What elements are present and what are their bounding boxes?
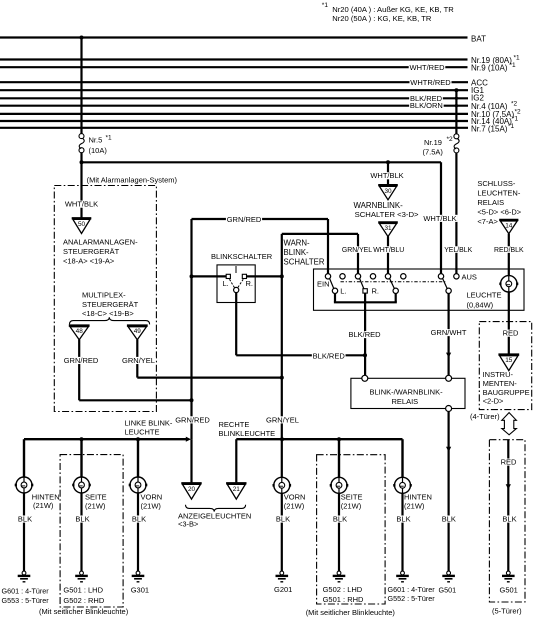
svg-text:BLK/RED: BLK/RED bbox=[348, 330, 381, 339]
wire BLK left seite bbox=[80, 493, 82, 571]
wire RED/BLK 5-door bbox=[507, 440, 509, 572]
wire WHT/BLK into alarm control unit bbox=[64, 201, 99, 208]
svg-text:GRN/RED: GRN/RED bbox=[64, 356, 99, 365]
svg-text:LINKE BLINK-: LINKE BLINK- bbox=[125, 419, 173, 428]
svg-text:RELAIS: RELAIS bbox=[392, 397, 419, 406]
svg-text:L.: L. bbox=[340, 287, 346, 296]
wire WHT/BLK horizontal to hazard switch bbox=[82, 161, 442, 163]
blade hazard pole4 bbox=[443, 279, 448, 289]
wire bus ACC bbox=[0, 81, 468, 83]
box Instrumenten-Baugruppe bbox=[479, 322, 531, 410]
svg-text:(21W): (21W) bbox=[284, 501, 305, 510]
svg-text:G601 : 4-Türer: G601 : 4-Türer bbox=[2, 586, 50, 595]
bulb LEUCHTE 0.84W bbox=[501, 276, 517, 292]
svg-text:Nr20 (50A ) : KG, KE, KB, TR: Nr20 (50A ) : KG, KE, KB, TR bbox=[332, 14, 432, 23]
blade hazard pole3 bbox=[390, 279, 395, 289]
pivot hazard pole2 bbox=[363, 289, 367, 293]
svg-text:<2-D>: <2-D> bbox=[483, 397, 504, 406]
svg-text:<5-D> <6-D>: <5-D> <6-D> bbox=[477, 208, 521, 217]
blade hazard pole2 bbox=[360, 279, 364, 289]
splice arrow 5-door wire bbox=[506, 484, 511, 489]
box 5-Tuerer variant bbox=[489, 440, 525, 602]
svg-text:R.: R. bbox=[246, 279, 254, 288]
ground G601 right hinten bbox=[401, 571, 405, 575]
splice arrow relay ground wire bbox=[446, 447, 451, 452]
contact L blinkschalter bbox=[226, 274, 230, 278]
svg-text:31: 31 bbox=[384, 225, 392, 232]
svg-text:R.: R. bbox=[372, 287, 380, 296]
wire right indicator drop bbox=[235, 439, 237, 483]
wire GRN/YEL top link to hazard switch bbox=[282, 233, 358, 235]
svg-text:(21W): (21W) bbox=[141, 501, 162, 510]
svg-text:LEUCHTE: LEUCHTE bbox=[467, 291, 502, 300]
junction right bus grnyel bbox=[280, 437, 284, 441]
wire right hinten lamp drop bbox=[401, 439, 403, 477]
svg-text:<7-A>: <7-A> bbox=[477, 217, 498, 226]
wire GRN/YEL from multiplex bbox=[136, 340, 138, 378]
splice arrow GRN/WHT bbox=[446, 353, 451, 358]
fuse Nr.5 (10A) bbox=[79, 134, 84, 139]
wire BAT feed to fuse Nr.5 bbox=[80, 38, 82, 134]
svg-text:(5-Türer): (5-Türer) bbox=[492, 607, 522, 616]
svg-text:G553 : 5-Türer: G553 : 5-Türer bbox=[2, 596, 50, 605]
wire BLK/RED blinkschalter common to relay feed bbox=[236, 354, 365, 356]
box mit seitlicher Blinkleuchte right bbox=[317, 455, 386, 604]
svg-text:(21W): (21W) bbox=[85, 501, 106, 510]
svg-text:15: 15 bbox=[505, 357, 513, 364]
svg-text:HINTEN: HINTEN bbox=[32, 492, 60, 501]
wire GRN/RED top link to hazard switch bbox=[192, 218, 329, 220]
svg-text:*2: *2 bbox=[447, 136, 454, 143]
wire BLK relay to ground bbox=[448, 412, 450, 572]
svg-text:MENTEN-: MENTEN- bbox=[483, 379, 518, 388]
svg-text:Nr.5: Nr.5 bbox=[89, 136, 103, 145]
svg-text:<18-C> <19-B>: <18-C> <19-B> bbox=[82, 309, 134, 318]
contact hazard pole3 b bbox=[401, 274, 406, 279]
svg-text:BLK/RED: BLK/RED bbox=[313, 351, 346, 360]
fuse Nr.19 (7.5A) bbox=[454, 134, 459, 139]
svg-text:Nr.9 (10A): Nr.9 (10A) bbox=[471, 63, 508, 72]
svg-text:GRN/WHT: GRN/WHT bbox=[431, 328, 467, 337]
bulb HINTEN right bbox=[395, 477, 411, 493]
svg-text:21: 21 bbox=[233, 486, 241, 493]
svg-text:G552 : 5-Türer: G552 : 5-Türer bbox=[388, 594, 436, 603]
svg-text:*1: *1 bbox=[512, 116, 519, 123]
ground G301 left vorn bbox=[136, 571, 140, 575]
svg-text:(21W): (21W) bbox=[341, 501, 362, 510]
wire bus Nr.4 (10A) bbox=[0, 105, 468, 107]
svg-text:BLK/ORN: BLK/ORN bbox=[410, 101, 443, 110]
svg-text:WHT/BLK: WHT/BLK bbox=[370, 171, 403, 180]
wire left indicator drop bbox=[190, 439, 192, 483]
svg-text:BLINKLEUCHTE: BLINKLEUCHTE bbox=[219, 429, 276, 438]
svg-text:WHT/BLU: WHT/BLU bbox=[373, 247, 404, 254]
bulb SEITE left bbox=[74, 477, 90, 493]
wire WHT/BLK drop to triangle 30 bbox=[387, 162, 389, 185]
wire GRN/RED from multiplex bbox=[78, 340, 80, 401]
wire BLK right vorn bbox=[281, 493, 283, 571]
ground G201 right vorn bbox=[280, 571, 284, 575]
svg-text:*1: *1 bbox=[510, 62, 517, 69]
svg-text:BLK: BLK bbox=[502, 515, 516, 524]
junction WHT/BLK branch bbox=[80, 160, 84, 164]
wire right vorn lamp (GRN/YEL continues) bbox=[281, 439, 283, 477]
svg-text:G501 : LHD: G501 : LHD bbox=[63, 586, 103, 595]
contact AUS bbox=[454, 274, 459, 279]
ground G501 relay bbox=[447, 571, 451, 575]
wire BLK right seite bbox=[338, 493, 340, 571]
bulb VORN left bbox=[130, 477, 146, 493]
junction IG2 crossing bbox=[455, 97, 458, 100]
box Warnblinkschalter assembly bbox=[314, 269, 525, 310]
brace multiplex outputs bbox=[70, 317, 150, 324]
svg-text:*1: *1 bbox=[322, 2, 329, 9]
svg-text:*2: *2 bbox=[515, 108, 522, 115]
wire bus Nr.19 (80A) bbox=[0, 58, 468, 60]
hazard switch output bar bbox=[334, 293, 336, 302]
junction IG1 tap bbox=[454, 88, 458, 92]
svg-text:G502 : LHD: G502 : LHD bbox=[323, 585, 363, 594]
svg-text:RECHTE: RECHTE bbox=[219, 420, 250, 429]
svg-text:VORN: VORN bbox=[141, 493, 163, 502]
box mit seitlicher Blinkleuchte left bbox=[60, 455, 123, 607]
junction BAT x fuse Nr.5 feed bbox=[80, 36, 84, 40]
connector triangle 14 schlussleuchten-relais bbox=[499, 219, 518, 221]
svg-text:50: 50 bbox=[78, 221, 86, 228]
hazard switch mechanical link bbox=[341, 281, 447, 283]
connector triangle 15 instrument cluster bbox=[498, 353, 519, 355]
pivot hazard pole4 bbox=[446, 288, 451, 293]
contact EIN hazard pole1 bbox=[325, 274, 330, 279]
wire left hinten lamp drop bbox=[23, 439, 25, 477]
wire right turn lamp bus bbox=[236, 438, 402, 440]
svg-text:STEUERGERÄT: STEUERGERÄT bbox=[82, 300, 139, 309]
wire bus Nr.10 (7,5A) bbox=[0, 113, 468, 115]
svg-text:*1: *1 bbox=[514, 54, 521, 61]
svg-text:WHT/BLK: WHT/BLK bbox=[65, 200, 98, 209]
svg-text:(Mit seitlicher Blinkleuchte): (Mit seitlicher Blinkleuchte) bbox=[39, 607, 129, 616]
svg-text:BAUGRUPPE: BAUGRUPPE bbox=[483, 388, 530, 397]
svg-text:HINTEN: HINTEN bbox=[404, 493, 432, 502]
svg-text:AUS: AUS bbox=[462, 273, 477, 282]
svg-text:ANALARMANLAGEN-: ANALARMANLAGEN- bbox=[63, 238, 138, 247]
box Blink-Warnblink-Relais bbox=[351, 378, 465, 408]
splice arrow left bus bbox=[186, 437, 191, 442]
wire turn switch R row bbox=[244, 275, 281, 277]
svg-text:14: 14 bbox=[505, 223, 513, 230]
svg-text:BLINK-: BLINK- bbox=[284, 248, 310, 257]
svg-text:GRN/YEL: GRN/YEL bbox=[342, 247, 372, 254]
connector triangle 31 warnblinkschalter bbox=[378, 221, 398, 223]
junction left bus vorn bbox=[136, 437, 140, 441]
svg-text:RED: RED bbox=[503, 329, 519, 338]
wire bus Nr.9 (10A) bbox=[0, 66, 468, 68]
wire bus BAT bbox=[0, 36, 468, 38]
wire YEL/BLK fuse Nr.19 to AUS contact bbox=[455, 153, 457, 274]
svg-text:GRN/RED: GRN/RED bbox=[175, 415, 210, 424]
contact hazard pole4 WHT/BLK bbox=[438, 274, 443, 279]
svg-text:30: 30 bbox=[384, 188, 392, 195]
junction GRN/RED join bbox=[190, 398, 194, 402]
junction WHT/BLK x warnblinkschalter drop bbox=[386, 160, 390, 164]
contact hazard pole1 b bbox=[340, 274, 345, 279]
svg-text:VORN: VORN bbox=[284, 493, 306, 502]
junction Nr.4 crossing bbox=[455, 104, 458, 107]
svg-text:(10A): (10A) bbox=[89, 146, 108, 155]
junction GRN/YEL join bbox=[280, 376, 284, 380]
svg-text:SCHALTER: SCHALTER bbox=[284, 257, 325, 266]
svg-text:LEUCHTE: LEUCHTE bbox=[125, 428, 160, 437]
svg-text:(7.5A): (7.5A) bbox=[423, 147, 444, 156]
svg-text:G501: G501 bbox=[439, 585, 457, 594]
wire GRN/WHT hazard pilot output bbox=[448, 293, 450, 378]
terminal relay bottom bbox=[446, 406, 452, 412]
svg-text:(4-Türer): (4-Türer) bbox=[470, 412, 500, 421]
svg-text:(21W): (21W) bbox=[33, 501, 54, 510]
wire left turn lamp bus bbox=[24, 438, 187, 440]
svg-text:WHT/BLK: WHT/BLK bbox=[423, 214, 456, 223]
wire GRN/RED vertical left output bbox=[190, 219, 192, 439]
connector triangle 49 GRN/YEL output bbox=[127, 324, 148, 326]
wire WHT/BLK right drop to hazard contact bbox=[440, 162, 442, 273]
svg-text:(21W): (21W) bbox=[404, 501, 425, 510]
brace anzeigeleuchten bbox=[186, 505, 246, 512]
svg-text:INSTRU-: INSTRU- bbox=[483, 370, 514, 379]
svg-text:Nr.7 (15A): Nr.7 (15A) bbox=[471, 124, 508, 133]
svg-text:49: 49 bbox=[134, 328, 142, 335]
bulb HINTEN left bbox=[16, 477, 32, 493]
svg-text:MULTIPLEX-: MULTIPLEX- bbox=[82, 291, 126, 300]
wire RED/BLK to illumination bulb bbox=[508, 234, 510, 276]
ground G601 left hinten bbox=[22, 571, 26, 575]
svg-text:BLK: BLK bbox=[132, 515, 146, 524]
svg-text:BLINK-/WARNBLINK-: BLINK-/WARNBLINK- bbox=[370, 387, 444, 396]
svg-text:YEL/BLK: YEL/BLK bbox=[444, 247, 472, 254]
contact common blinkschalter bbox=[234, 287, 239, 292]
svg-text:GRN/RED: GRN/RED bbox=[227, 215, 262, 224]
svg-text:RED: RED bbox=[501, 458, 517, 467]
blade hazard pole1 bbox=[330, 279, 334, 289]
pivot hazard pole3 bbox=[393, 288, 398, 293]
svg-text:L.: L. bbox=[223, 279, 229, 288]
svg-text:WARNBLINK-: WARNBLINK- bbox=[354, 201, 404, 210]
svg-text:RELAIS: RELAIS bbox=[477, 198, 504, 207]
wire BLK/RED hazard output bbox=[364, 302, 366, 378]
wire bus Nr.14 (40A) bbox=[0, 120, 468, 122]
wire RED illumination bulb to instruments bbox=[508, 292, 510, 355]
svg-text:G601 : 4-Türer: G601 : 4-Türer bbox=[388, 585, 436, 594]
svg-text:*1: *1 bbox=[508, 123, 515, 130]
connector triangle 50 alarm control unit bbox=[72, 217, 92, 219]
svg-text:WARN-: WARN- bbox=[284, 238, 311, 247]
wire WHT/BLK fuse Nr.5 output bbox=[80, 153, 82, 219]
svg-text:(Mit Alarmanlagen-System): (Mit Alarmanlagen-System) bbox=[87, 175, 178, 184]
wire WHT/BLU triangle 31 to hazard contact bbox=[387, 236, 389, 273]
contact hazard pole2 b bbox=[370, 274, 375, 279]
wire left vorn lamp drop bbox=[137, 439, 139, 477]
svg-text:20: 20 bbox=[188, 486, 196, 493]
svg-text:Nr20 (40A ) : Außer KG, KE, KB: Nr20 (40A ) : Außer KG, KE, KB, TR bbox=[332, 5, 454, 14]
terminal relay right bbox=[446, 375, 452, 381]
box Blinkschalter bbox=[217, 265, 255, 303]
svg-text:BAT: BAT bbox=[471, 34, 486, 43]
wire bus IG2 bbox=[0, 97, 468, 99]
bulb SEITE right bbox=[331, 477, 347, 493]
wire blinkschalter common down bbox=[235, 293, 237, 356]
svg-text:48: 48 bbox=[76, 328, 84, 335]
junction left bus seite bbox=[80, 437, 84, 441]
svg-text:STEUERGERÄT: STEUERGERÄT bbox=[63, 247, 120, 256]
double arrow 4/5 door variant bbox=[502, 413, 517, 435]
svg-text:RED/BLK: RED/BLK bbox=[494, 247, 524, 254]
wire left seite lamp drop bbox=[80, 439, 82, 477]
svg-text:G501 : RHD: G501 : RHD bbox=[323, 595, 364, 604]
svg-text:(0,84W): (0,84W) bbox=[467, 300, 494, 309]
svg-text:(Mit seitlicher Blinkleuchte): (Mit seitlicher Blinkleuchte) bbox=[306, 608, 396, 617]
wire bus Nr.7 (15A) bbox=[0, 127, 468, 129]
svg-text:<18-A> <19-A>: <18-A> <19-A> bbox=[63, 256, 115, 265]
contact hazard pole2 a bbox=[355, 274, 360, 279]
svg-text:SCHLUSS-: SCHLUSS- bbox=[477, 179, 515, 188]
connector triangle 48 GRN/RED output bbox=[69, 324, 90, 326]
wire BLK right hinten bbox=[401, 493, 403, 571]
terminal relay left bbox=[362, 375, 368, 381]
wire bus IG1 bbox=[0, 89, 468, 91]
blinkschalter lever bbox=[235, 266, 237, 273]
svg-text:G201: G201 bbox=[274, 585, 292, 594]
connector triangle 21 anzeigeleuchte rechts bbox=[226, 482, 246, 484]
connector triangle 30 warnblinkschalter bbox=[378, 184, 398, 186]
svg-text:BLK: BLK bbox=[276, 515, 290, 524]
svg-text:SEITE: SEITE bbox=[341, 493, 363, 502]
svg-text:LEUCHTEN-: LEUCHTEN- bbox=[477, 188, 520, 197]
svg-text:WHT/RED: WHT/RED bbox=[410, 63, 446, 72]
svg-text:GRN/YEL: GRN/YEL bbox=[122, 356, 155, 365]
connector triangle 20 anzeigeleuchte links bbox=[181, 482, 201, 484]
svg-text:BLK: BLK bbox=[442, 515, 456, 524]
bulb VORN right bbox=[274, 477, 290, 493]
wire BLK left vorn bbox=[137, 493, 139, 571]
svg-text:BLINKSCHALTER: BLINKSCHALTER bbox=[211, 252, 273, 261]
ground G501 5-door bbox=[506, 571, 510, 575]
svg-text:BLK: BLK bbox=[333, 515, 347, 524]
wire GRN/YEL vertical right output bbox=[281, 234, 283, 439]
contact hazard pole3 a bbox=[385, 274, 390, 279]
svg-text:SCHALTER <3-D>: SCHALTER <3-D> bbox=[355, 210, 419, 219]
svg-text:*1: *1 bbox=[106, 135, 113, 142]
ground G501 left seite bbox=[80, 571, 84, 575]
svg-text:G301: G301 bbox=[131, 586, 149, 595]
svg-text:G502 : RHD: G502 : RHD bbox=[63, 596, 104, 605]
svg-text:BLK: BLK bbox=[75, 515, 89, 524]
ground G502 right seite bbox=[337, 571, 341, 575]
svg-text:<3-B>: <3-B> bbox=[178, 520, 199, 529]
svg-text:G501: G501 bbox=[500, 585, 518, 594]
svg-text:BLK: BLK bbox=[396, 515, 410, 524]
wire GRN/RED turn switch L row bbox=[192, 275, 229, 277]
box Mit Alarmanlagen-System bbox=[54, 186, 156, 412]
svg-text:Nr.19: Nr.19 bbox=[424, 138, 442, 147]
wire right seite lamp drop bbox=[338, 439, 340, 477]
wire IG1 to fuse Nr.19 bbox=[455, 90, 457, 134]
junction right bus seite bbox=[337, 437, 341, 441]
svg-text:*2: *2 bbox=[511, 101, 518, 108]
svg-text:EIN: EIN bbox=[317, 279, 330, 288]
svg-text:SEITE: SEITE bbox=[85, 493, 107, 502]
junction BLK/RED join bbox=[363, 353, 367, 357]
svg-text:BLK: BLK bbox=[18, 515, 32, 524]
pivot hazard pole1 bbox=[332, 288, 337, 293]
svg-text:GRN/YEL: GRN/YEL bbox=[266, 415, 299, 424]
svg-text:WHTR/RED: WHTR/RED bbox=[410, 78, 451, 87]
junction GRN/YEL x R row bbox=[280, 274, 284, 278]
contact R blinkschalter bbox=[242, 274, 246, 278]
junction GRN/RED x L row bbox=[190, 274, 194, 278]
wire BLK left hinten bbox=[23, 493, 25, 571]
